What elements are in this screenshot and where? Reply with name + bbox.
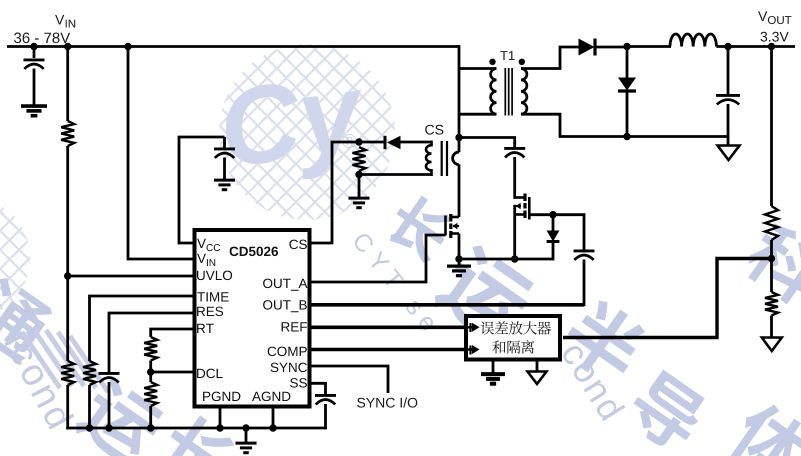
wire primary top: [459, 67, 496, 70]
U2 input arrows: [468, 323, 480, 355]
node clamp drive: [549, 211, 556, 218]
wire Q1 source down: [458, 234, 461, 260]
wire COMP: [312, 348, 465, 352]
wire C6 to OUT_B corner: [583, 260, 586, 307]
diode D3: [618, 78, 636, 92]
U2 label line2: [492, 340, 534, 353]
wire R2 top lead: [66, 276, 69, 361]
inductor L1: [670, 34, 716, 47]
wire VCC pin to C2: [179, 137, 225, 243]
wire C5 to Q2 drain: [513, 157, 516, 199]
capacitor C6 drive: [574, 251, 595, 260]
diode D4: [547, 231, 560, 242]
ground Q1: [447, 266, 471, 276]
resistor R6: [353, 147, 366, 171]
resistor R2: [61, 361, 74, 385]
node C3-rail: [105, 424, 112, 431]
node UVLO: [64, 272, 71, 279]
wire OUT_B: [312, 303, 585, 307]
wire D3 top lead: [626, 47, 629, 79]
node gnd-rail: [242, 424, 249, 431]
wire R3 bottom lead: [88, 385, 91, 428]
wire UVLO: [68, 275, 193, 278]
wire SYNC: [312, 366, 389, 393]
capacitor C2: [214, 149, 235, 158]
wire D4 to rail: [552, 242, 555, 261]
resistor R4: [144, 337, 157, 361]
node Q2-rail: [511, 255, 518, 262]
ground U2 chassis: [528, 372, 547, 385]
wire L1 to VOUT: [716, 45, 795, 48]
label SYNC I/O: [357, 397, 417, 407]
node Q1-rail: [455, 255, 462, 262]
node PGND-rail: [216, 424, 223, 431]
wire node to L1: [627, 45, 671, 48]
wire clamp cap branch: [459, 138, 515, 148]
ground R6: [349, 198, 370, 208]
capacitor C4 SS: [315, 395, 336, 404]
U1 pin labels: [197, 239, 308, 401]
wire VIN to pin: [128, 47, 193, 260]
transformer CS secondary winding: [426, 141, 432, 177]
wire D1 to CS winding: [400, 141, 432, 144]
node snubber bottom: [355, 171, 362, 178]
resistor R7: [765, 206, 778, 240]
node AGND-rail: [269, 424, 276, 431]
wire Q1 gnd stub: [458, 259, 461, 266]
node R3-rail: [86, 424, 93, 431]
error amplifier U2 box: [466, 316, 560, 360]
ground C1: [21, 106, 47, 116]
transformer CS primary turn: [453, 152, 459, 165]
resistor R8: [765, 292, 778, 316]
wire CS to Q1 drain: [458, 164, 461, 217]
wire gnd stub: [245, 428, 248, 443]
wire VIN rail: [7, 45, 459, 48]
transistor Q2: [515, 194, 530, 220]
wire feedback: [563, 259, 772, 338]
wire C3 bottom lead: [108, 382, 111, 428]
wire snubber to D1: [359, 141, 385, 144]
wire FB to R8: [770, 259, 773, 293]
ground secondary: [718, 146, 740, 161]
wire C4 bottom lead: [324, 404, 327, 429]
label T1: [500, 51, 514, 60]
wire R7 to FB node: [770, 240, 773, 259]
U2 label line1: [481, 321, 552, 335]
transformer CS core: [442, 141, 447, 176]
wire R5 bottom lead: [149, 406, 152, 428]
wire R2 bottom lead: [66, 385, 69, 429]
node rect out: [623, 43, 630, 50]
label VIN: [55, 15, 75, 28]
wire R1 top lead: [66, 47, 69, 122]
node DCL: [147, 368, 154, 375]
label 36-78V: [14, 33, 70, 44]
resistor R5: [144, 382, 157, 406]
wire U2 left gnd stub: [492, 362, 495, 375]
wire ground rail: [66, 427, 325, 430]
T1 secondary dot: [519, 59, 525, 65]
label VOUT: [758, 11, 791, 24]
wire Q2 gate to node: [529, 213, 553, 216]
node D3-rail: [623, 133, 630, 140]
ground main: [236, 443, 257, 453]
wire SS: [312, 383, 326, 394]
resistor R1: [61, 121, 74, 146]
wire C2 bottom lead: [223, 158, 226, 181]
diode D2: [579, 39, 596, 56]
wire secondary return: [521, 114, 729, 136]
wire OUT_A: [312, 235, 446, 282]
wire C1 bottom lead: [33, 69, 36, 107]
wire source rail: [459, 258, 553, 261]
node R5-rail: [147, 424, 154, 431]
wire RT: [151, 329, 193, 337]
wire C2 top lead: [223, 137, 226, 148]
wire drive cap branch: [553, 215, 584, 250]
wire primary branch down: [458, 45, 461, 152]
capacitor C7: [716, 95, 740, 104]
wire U2 right gnd stub: [536, 362, 539, 372]
capacitor C3: [99, 373, 120, 382]
wire node to D4: [552, 215, 555, 231]
wire TIME: [90, 296, 193, 361]
resistor R3: [83, 361, 96, 385]
transformer T1 secondary winding: [521, 69, 527, 115]
T1 primary dot: [489, 59, 495, 65]
wire R8 gnd lead: [770, 316, 773, 339]
wire R1 to UVLO node: [66, 146, 69, 276]
ground R8: [762, 338, 782, 352]
wire R4 to DCL node: [149, 361, 152, 383]
wire DCL: [151, 371, 193, 374]
wire C7 bottom lead: [727, 104, 730, 137]
node VIN-C1: [30, 43, 37, 50]
wire REF: [312, 325, 465, 329]
wire C7 top lead: [727, 47, 730, 95]
wire PGND: [219, 409, 222, 429]
node L1-C7: [724, 43, 731, 50]
label 3.3V: [761, 32, 789, 42]
ground C2: [214, 180, 235, 190]
node snubber top: [355, 138, 362, 145]
node VOUT: [768, 43, 775, 50]
wire D3 to return rail: [626, 91, 629, 137]
transformer T1 core: [505, 68, 512, 116]
diode D1: [385, 136, 401, 149]
wire R6 gnd stub: [358, 175, 361, 199]
op-amp U1 CD5026 box: [195, 230, 310, 407]
wire VOUT down: [770, 47, 773, 207]
wire secondary top: [521, 47, 579, 69]
wire AGND: [272, 409, 275, 429]
ground U2 signal: [481, 374, 505, 384]
wire CS winding bottom: [359, 173, 432, 176]
node clamp branch: [455, 134, 462, 141]
capacitor C5 clamp: [504, 148, 525, 157]
label CS: [425, 125, 443, 135]
wire C1 top lead: [33, 47, 36, 59]
wire return gnd stub: [727, 137, 730, 147]
node VIN-R1: [64, 43, 71, 50]
wire Q2 source down: [513, 205, 516, 259]
transformer T1 primary winding: [491, 69, 497, 115]
node VIN-pin: [124, 43, 131, 50]
wire D2 to node: [595, 46, 629, 49]
wire RES: [109, 313, 193, 372]
capacitor C1: [24, 60, 45, 69]
wire CS pin to snubber: [312, 142, 360, 243]
wire primary bottom: [459, 113, 497, 116]
transistor Q1: [446, 214, 460, 238]
node FB: [768, 255, 775, 262]
